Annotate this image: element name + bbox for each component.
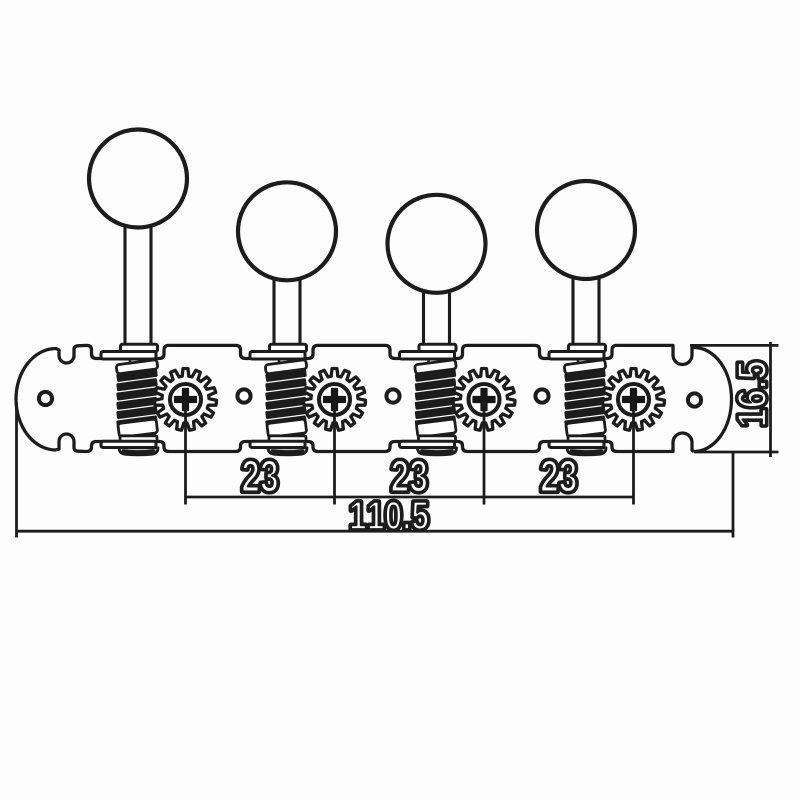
extension line from gear G2 center [333, 400, 336, 505]
tuner 3: button knob [388, 195, 486, 293]
tuner 2: worm spring coils [265, 369, 307, 382]
tuner 1: shaft stubs [129, 359, 132, 364]
tuner 2: bottom washer [250, 441, 305, 447]
dimension text 110.5 overall length [351, 501, 428, 529]
tuner 1: bottom collar flange [120, 436, 157, 442]
tuner 4: worm spring top loop [564, 360, 606, 374]
dimension text 23 between G2 and G3 [392, 460, 427, 492]
tuner 3: top washer [400, 352, 455, 360]
dimension text 23 between G1 and G2 [242, 460, 277, 492]
plate outline: left end, top edge, right end [16, 345, 732, 451]
left end extension line [15, 402, 18, 538]
tuner 1: worm spring top loop [116, 360, 158, 374]
mounting hole between G2 and G3 [386, 389, 399, 402]
tuner 1: bottom cap [119, 448, 158, 455]
dimension text 23 between G3 and G4 [541, 460, 576, 492]
right end extension line [732, 452, 735, 538]
tuner 2: worm spring top loop [265, 360, 307, 374]
gear G2 teeth [304, 368, 366, 430]
tuner 4: top collar flange [569, 344, 606, 351]
tuner 3: worm spring top loop [415, 360, 457, 374]
16.5 top extension line [690, 344, 779, 347]
tuner 1: button knob [89, 130, 187, 228]
extension line from gear G1 center [184, 400, 187, 505]
tuner 4: button stem [571, 276, 574, 346]
tuner 3: top collar flange [419, 344, 456, 351]
tuner 4: bottom cap [567, 448, 606, 455]
tuner 3: shaft stubs [427, 359, 430, 364]
tuner 3: lower shaft collar [416, 419, 456, 438]
gear G3 teeth [453, 368, 515, 430]
tuner 4: bottom washer [549, 441, 604, 447]
tuner 4: shaft stubs [577, 359, 580, 364]
tuner 3: bottom washer [400, 441, 455, 447]
tuner 2: top washer [250, 352, 305, 360]
tuner 2: button stem [272, 277, 275, 346]
tuner 2: top collar flange [270, 344, 307, 351]
tuner 4: top washer [549, 352, 604, 360]
tuner 1: bottom washer [101, 441, 156, 447]
tuner 3: worm spring coils [415, 369, 457, 382]
dimension text 16.5 plate width (vertical) [737, 361, 766, 425]
tuner 4: lower shaft collar [566, 419, 606, 438]
tuner 1: top collar flange [121, 344, 158, 351]
gear G1 phillips screw cross [175, 389, 197, 411]
gear G4 screw boss [618, 384, 649, 415]
gear G2 phillips screw cross [324, 389, 346, 411]
tuner 2: button knob [238, 182, 336, 280]
16.5 bottom extension line [694, 451, 779, 454]
gear G3 phillips screw cross [473, 389, 495, 411]
tuner 1: top washer [101, 352, 156, 360]
23 dimension line [186, 496, 634, 499]
tuner 1: worm spring coils [116, 369, 158, 382]
extension line from gear G4 center [632, 400, 635, 505]
gear G4 phillips screw cross [623, 389, 645, 411]
mounting hole between G1 and G2 [237, 389, 250, 402]
mounting hole between G3 and G4 [535, 389, 548, 402]
16.5 dimension line vertical [769, 342, 772, 457]
tuner 4: button knob [537, 181, 635, 279]
tuner 2: bottom cap [268, 448, 307, 455]
tuner 1: lower shaft collar [118, 419, 158, 438]
tuner 3: bottom cap [418, 448, 457, 455]
tuner 4: worm spring coils [564, 369, 606, 382]
mounting hole left end [39, 392, 52, 405]
tuner 3: bottom collar flange [419, 436, 456, 442]
tuner 3: button stem [422, 290, 425, 346]
tuner 4: bottom collar flange [568, 436, 605, 442]
gear G2 screw boss [319, 384, 350, 415]
gear G4 teeth [603, 368, 665, 430]
110.5 dimension line [17, 530, 734, 533]
plate outline: bottom edge [56, 433, 694, 452]
gear G1 screw boss [170, 384, 201, 415]
tuner 1: button stem [123, 225, 126, 347]
tuner 2: bottom collar flange [269, 436, 306, 442]
tuner 2: shaft stubs [278, 359, 281, 364]
gear G1 teeth [155, 368, 217, 430]
mounting hole right end [688, 393, 701, 406]
extension line from gear G3 center [483, 400, 486, 505]
tuner 2: lower shaft collar [267, 419, 307, 438]
gear G3 screw boss [469, 384, 500, 415]
